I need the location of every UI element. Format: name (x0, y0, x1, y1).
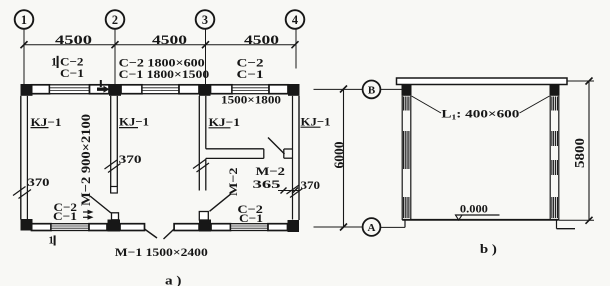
svg-text:C−1: C−1 (239, 211, 263, 225)
svg-text:C−1: C−1 (237, 67, 264, 81)
svg-text:1: 1 (49, 236, 54, 247)
top wall bay1 segment left (32, 85, 50, 94)
svg-text:0.000: 0.000 (460, 201, 488, 215)
column right section (550, 96, 559, 220)
top wall bay2 segment right (179, 85, 199, 94)
bottom wall bay1 segment right (89, 224, 107, 231)
bottom wall bay2 segment right (174, 224, 199, 231)
svg-text:C−1: C−1 (60, 66, 84, 80)
svg-text:C−1: C−1 (53, 209, 77, 223)
level line A right (380, 226, 405, 228)
column axis3 bottom (199, 220, 211, 232)
svg-text:KJ−1: KJ−1 (301, 114, 331, 128)
svg-text:4500: 4500 (55, 33, 92, 47)
interior wall below axis3 (199, 96, 206, 191)
ground line (402, 219, 559, 221)
svg-text:1: 1 (21, 13, 27, 27)
top wall bay2 segment left (121, 85, 142, 94)
svg-text:M−1 1500×2400: M−1 1500×2400 (115, 245, 208, 259)
label KJ-1 room2 (119, 115, 149, 129)
column axis1 top (21, 84, 33, 96)
svg-text:370: 370 (28, 175, 50, 189)
wall stub at right wall (284, 149, 293, 158)
beam label leader right (520, 96, 550, 113)
svg-text:6000: 6000 (332, 142, 347, 169)
bottom wall bay3 segment right (268, 224, 288, 231)
tick 6000 bottom (340, 224, 347, 231)
bottom wall bay1 window C-1/C-2 (51, 224, 89, 231)
left wall break mark (13, 187, 31, 199)
label KJ-1 right of plan (301, 114, 331, 128)
slab extension right (567, 80, 594, 82)
tick 6000 top (340, 86, 347, 93)
bottom wall bay3 window C-1/C-2 (231, 224, 269, 231)
svg-text:C−1 1800×1500: C−1 1800×1500 (119, 67, 210, 81)
level line B right (380, 88, 402, 90)
beam block right (550, 85, 560, 96)
door M-1 leader left (145, 229, 158, 238)
axis line 4 (295, 29, 297, 69)
right wall break mark (287, 185, 303, 198)
svg-text:A: A (368, 222, 376, 234)
foundation line right (557, 228, 576, 230)
bottom wall bay3 segment left (211, 224, 231, 231)
right foundation drop (556, 220, 558, 229)
dim 365 line and ticks (278, 188, 299, 194)
svg-text:365: 365 (253, 177, 281, 191)
door stop at axis2 (112, 213, 119, 220)
svg-text:M−2 900×2100: M−2 900×2100 (78, 114, 93, 206)
column axis4 top (288, 84, 300, 96)
tick 5800 top (586, 78, 593, 85)
top wall bay3 window C-1/C-2 (232, 85, 269, 94)
ground extension right (559, 219, 594, 221)
beam block left (402, 85, 412, 96)
axis2 wall break mark (105, 160, 121, 173)
svg-text:1: 1 (51, 55, 57, 69)
dimension tick axis3 (202, 41, 209, 48)
svg-text:M−2: M−2 (256, 164, 286, 178)
axis circle 2 (106, 10, 125, 29)
level triangle (456, 215, 463, 220)
axis circle 4 (286, 10, 305, 29)
axis3 wall break mark (193, 160, 209, 173)
section mark 1 top (51, 55, 58, 69)
svg-text:5800: 5800 (573, 138, 588, 168)
roof slab (397, 78, 568, 85)
svg-text:KJ−1: KJ−1 (209, 115, 241, 129)
tick 5800 bottom (586, 217, 593, 224)
axis circle 1 (15, 10, 34, 29)
dimension tick axis4 (292, 41, 299, 48)
level line 0.000 (455, 214, 500, 216)
column axis1 bottom (21, 219, 33, 231)
arrow2 to left door (83, 215, 94, 220)
svg-text:B: B (368, 85, 376, 97)
vertical dim line 6000 (343, 89, 345, 227)
svg-text:4500: 4500 (244, 33, 279, 47)
svg-text:3: 3 (202, 13, 208, 27)
beam label leader left (412, 96, 442, 113)
svg-text:L1: 400×600: L1: 400×600 (441, 107, 519, 122)
column axis4 bottom (288, 220, 300, 232)
arrow to left door (83, 210, 94, 215)
door M-2 left room leaf (90, 196, 111, 213)
bottom wall bay2 segment left (120, 224, 145, 231)
level line B left (314, 88, 363, 90)
left foundation drop (404, 220, 406, 227)
column axis3 top (199, 84, 211, 96)
column left section (402, 96, 411, 220)
column axis2 bottom (108, 220, 121, 232)
section mark 1 bottom (49, 235, 55, 246)
axis line 3 (205, 29, 207, 84)
right exterior wall (293, 96, 300, 220)
top wall bay3 segment left (211, 85, 233, 94)
top wall bay1 window C-1/C-2 (50, 85, 90, 94)
dimension line top (24, 44, 295, 46)
label KJ-1 room3 (209, 115, 241, 129)
svg-text:4500: 4500 (152, 33, 187, 47)
door M-1 leader right (164, 229, 175, 239)
leader axis3 door (210, 194, 232, 212)
door stop at axis3 (199, 212, 208, 221)
svg-text:KJ−1: KJ−1 (31, 115, 62, 129)
interior horizontal wall right room (206, 149, 264, 159)
grid circle B (363, 81, 381, 99)
svg-text:370: 370 (119, 152, 142, 166)
svg-text:M−2: M−2 (226, 168, 240, 197)
column axis2 top (109, 84, 121, 96)
bottom wall bay1 segment left (32, 224, 52, 231)
level line A left (314, 226, 363, 228)
top wall bay2 window C-1/C-2 (142, 85, 179, 94)
axis line 2 (114, 29, 116, 84)
axis line 1 (23, 29, 25, 84)
left exterior wall (21, 96, 28, 220)
dimension tick axis1 (21, 41, 28, 48)
top wall bay3 segment right (269, 85, 288, 94)
dimension tick axis2 (112, 41, 119, 48)
svg-text:a ): a ) (165, 274, 182, 286)
axis circle 3 (196, 10, 215, 29)
top wall bay1 segment right (90, 85, 110, 94)
svg-text:KJ−1: KJ−1 (119, 115, 149, 129)
interior wall below axis2 (111, 96, 118, 193)
section sight arrow on top wall (97, 80, 110, 93)
svg-text:2: 2 (112, 13, 118, 27)
svg-text:370: 370 (301, 178, 321, 192)
grid circle A (363, 218, 381, 236)
vertical dim line 5800 (588, 81, 590, 220)
label KJ-1 room1 (31, 115, 62, 129)
svg-text:4: 4 (292, 13, 298, 27)
door M-2 right room leaf (268, 138, 285, 155)
svg-text:b ): b ) (480, 242, 497, 256)
